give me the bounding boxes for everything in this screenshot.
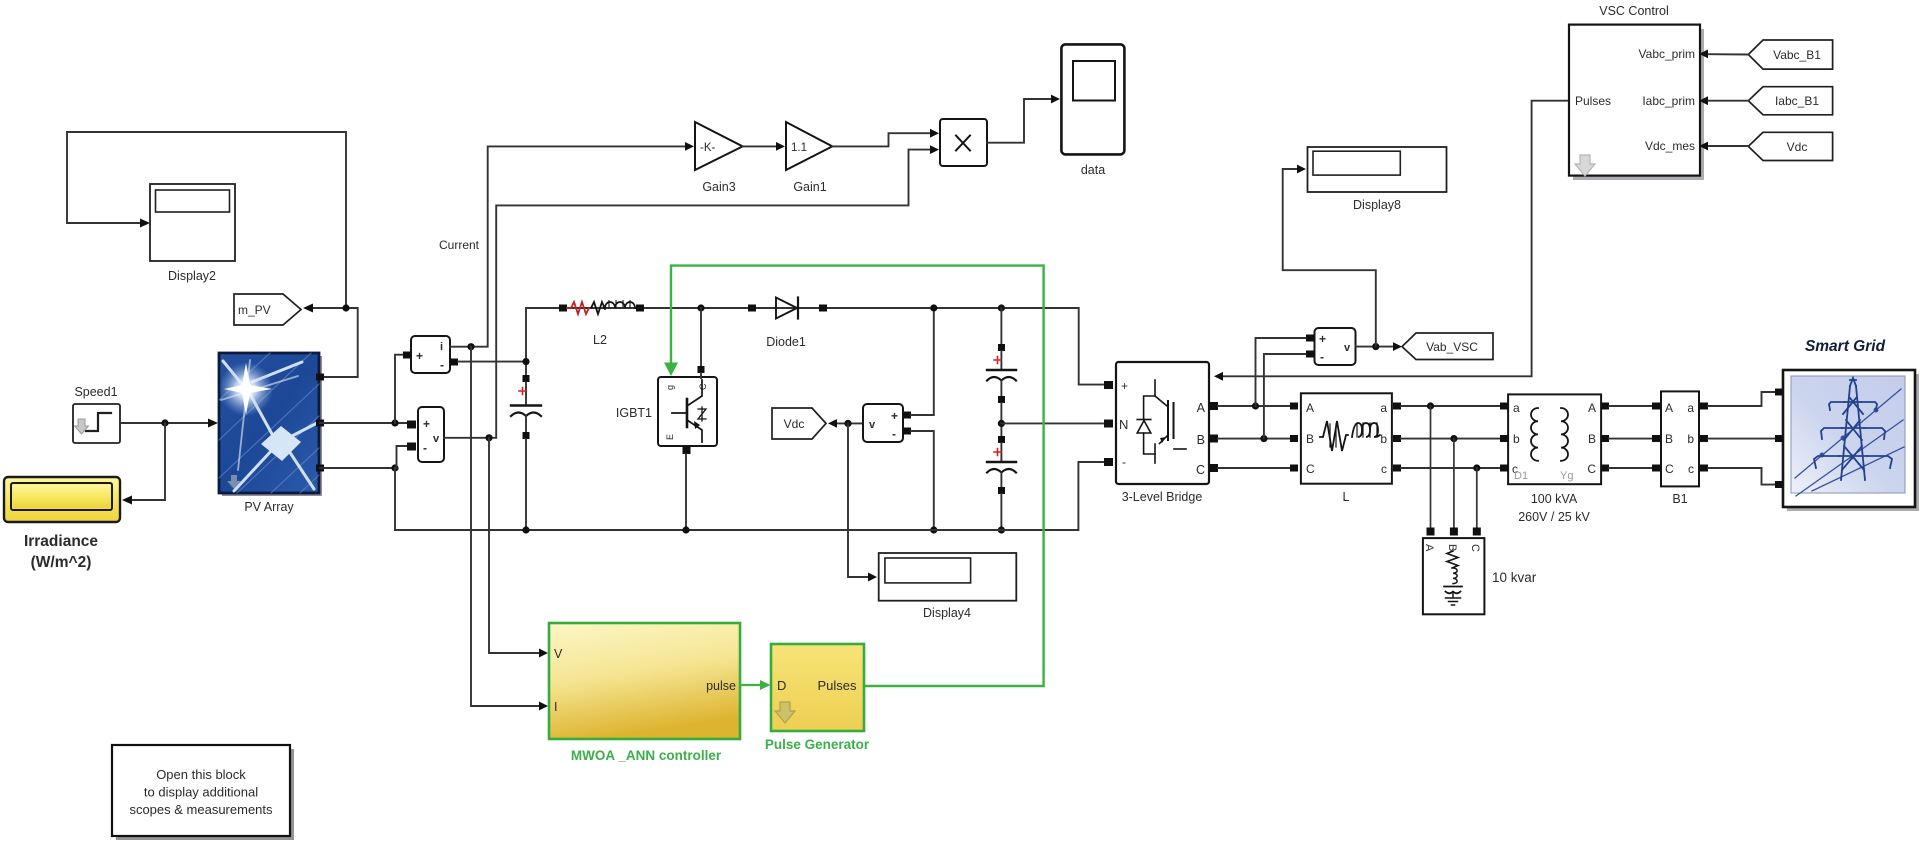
svg-text:-: - [1122,455,1126,469]
svg-text:E: E [665,434,675,440]
port square L C [1290,465,1298,472]
svg-text:B: B [1588,432,1596,446]
svg-text:b: b [1380,432,1387,446]
svg-text:PV Array: PV Array [244,500,294,514]
arrowhead into m_PV [303,304,313,313]
wire Vab sensor to tag [1356,346,1393,348]
arrowhead into controller V [539,649,548,658]
wire Vdc branch down to Display4 [848,423,869,577]
port square L a [1393,403,1401,410]
port square bridge N [1104,420,1113,428]
port square IGBT collector [698,366,705,373]
port square Vab plus [1306,335,1314,342]
PV Array output port + [316,420,324,427]
goto tag m_PV [234,294,301,325]
junction Display8 branch [1372,343,1379,350]
svg-text:-: - [892,427,896,441]
port square bridge plus [1104,381,1113,389]
wire cap link vertical [525,308,527,378]
green arrowhead into IGBT gate [664,363,678,377]
svg-text:a: a [1380,401,1387,415]
port square bridge A [1209,402,1218,410]
wire Vdc tag to VSC [1709,145,1748,147]
svg-text:a: a [1513,401,1520,415]
junction on DC plus rail [930,304,937,311]
wire voltage branch down to controller V input [489,438,540,653]
svg-text:C: C [1469,544,1481,552]
arrowhead into Gain1 [776,142,785,151]
junction bottom bus left cap [522,526,529,533]
load block 10 kvar [1423,528,1537,615]
junction PV - node [391,464,398,471]
subsystem MWOA _ANN controller [549,623,740,763]
junction Vab minus tap [1260,435,1267,442]
svg-text:Display8: Display8 [1353,198,1401,212]
svg-text:IGBT1: IGBT1 [616,406,652,420]
port square +v plus [407,421,416,429]
display Irradiance [4,477,120,571]
svg-text:10 kvar: 10 kvar [1492,570,1537,585]
svg-text:Display4: Display4 [923,606,971,620]
junction DC link caps top [998,304,1005,311]
junction kvar A tap [1427,402,1434,409]
svg-text:Pulse Generator: Pulse Generator [765,737,870,752]
subsystem Pulse Generator [765,644,870,752]
wire down to IGBT collector [700,308,702,367]
display Display8 [1308,147,1447,212]
svg-text:V: V [554,647,563,661]
transformer block [1508,394,1601,524]
port square transformer C [1601,465,1609,472]
svg-text:i: i [440,341,443,353]
wire branch up to Display8 [1283,169,1376,347]
svg-text:A: A [1423,544,1435,552]
wire vdc plus to DC plus rail [911,308,934,415]
arrowhead into PV Array [208,419,218,428]
svg-text:VSC Control: VSC Control [1599,4,1668,18]
wire tap to Vab sensor minus [1264,354,1305,439]
svg-text:C: C [1306,462,1315,476]
svg-text:+: + [1121,379,1128,393]
gain Gain3 [695,122,743,194]
port square B1 C [1652,465,1660,472]
arrowhead into Gain3 [685,142,694,151]
measurement block B1 [1661,391,1699,506]
wire v output to multiply and controller [444,150,931,438]
green arrowhead into pulse generator [760,680,771,690]
svg-text:scopes & measurements: scopes & measurements [129,802,273,817]
from tag Vabc_B1 [1748,40,1832,69]
gain Gain1 [786,122,832,194]
port square transformer B [1601,435,1609,442]
svg-text:100 kVA: 100 kVA [1531,492,1578,506]
wire B1 b to grid [1708,438,1776,440]
filter block L [1301,393,1392,504]
junction bottom bus IGBT [682,526,689,533]
arrowhead into VSC Vabc_prim [1699,50,1708,59]
wire bridge A to L filter [1218,405,1290,407]
arrowhead into product upper input [930,129,939,138]
svg-text:A: A [1306,401,1314,415]
svg-text:Vab_VSC: Vab_VSC [1426,340,1478,354]
arrowhead into Vab_VSC tag [1393,342,1402,351]
svg-text:B: B [1446,544,1458,551]
product block [940,119,987,166]
current sensor +i [411,336,450,373]
svg-text:Speed1: Speed1 [74,385,117,399]
junction cap node [522,358,529,365]
port square L A [1290,403,1298,410]
junction kvar B tap [1450,435,1457,442]
junction DC link midpoint [998,420,1005,427]
scope data [1061,44,1124,177]
wire Gain1 to product [832,133,931,146]
svg-text:I: I [554,700,557,714]
green wire controller pulse to pulse generator D [740,684,761,686]
svg-text:-K-: -K- [700,142,716,154]
port square +i minus right [450,359,458,366]
green wire pulse generator to IGBT gate [671,266,1044,686]
wire IGBT emitter to bottom bus [685,454,687,530]
port square L c [1393,465,1401,472]
diode Diode1 [748,298,827,350]
port square B1 a [1700,403,1708,410]
svg-text:C: C [1587,462,1596,476]
svg-text:a: a [1687,401,1694,415]
port square transformer b [1500,435,1508,442]
port square +v minus [407,443,416,451]
svg-text:Pulses: Pulses [817,678,857,693]
port square B1 A [1652,403,1660,410]
svg-text:B: B [1306,432,1314,446]
svg-text:-: - [1320,350,1324,364]
arrowhead into bridge P [1214,372,1223,381]
capacitor C input [511,375,541,530]
svg-text:v: v [869,419,876,431]
wire tap down to kvar B [1453,439,1455,529]
PV Array output port - [316,465,324,472]
svg-text:-: - [423,441,427,455]
voltage sensor vdc [863,404,903,442]
port square grid c [1775,481,1783,488]
wire PV + output to node [320,422,411,424]
Smart Grid block [1783,338,1919,511]
svg-text:Yg: Yg [1560,470,1573,482]
svg-text:C: C [1665,462,1674,476]
3-Level Bridge block [1116,362,1209,504]
wire Iabc_B1 to VSC [1709,100,1748,102]
display Display2 [150,184,235,283]
svg-text:C: C [1196,463,1205,477]
svg-text:Vdc: Vdc [1787,140,1808,154]
wire node up to current sensor input [395,355,405,423]
svg-text:Vdc: Vdc [784,417,805,431]
svg-text:b: b [1687,432,1694,446]
wire L c to transformer [1401,467,1500,469]
svg-text:v: v [433,433,440,445]
arrowhead into scope [1051,95,1060,104]
bottom bus wire [395,462,1103,530]
svg-text:260V / 25 kV: 260V / 25 kV [1518,510,1590,524]
wire vdc sensor output to Vdc tag [836,422,863,424]
port square +i left [403,352,411,359]
port square B1 c [1700,465,1708,472]
wire bridge B to L filter [1218,438,1290,440]
wire transformer A to B1 [1609,405,1652,407]
inductor L2 [559,301,644,348]
junction kvar C tap [1473,464,1480,471]
svg-text:Irradiance: Irradiance [24,533,98,550]
svg-text:D1: D1 [1514,470,1528,482]
svg-text:B: B [1197,433,1205,447]
svg-text:Iabc_prim: Iabc_prim [1642,94,1695,108]
junction Vdc display branch [844,420,851,427]
svg-text:Vabc_prim: Vabc_prim [1639,47,1695,61]
junction current branch [467,343,474,350]
svg-text:Gain3: Gain3 [702,180,735,194]
wire node up to voltage sensor minus input [395,446,411,468]
port square B1 b [1700,435,1708,442]
svg-text:B1: B1 [1672,492,1687,506]
svg-text:D: D [777,678,786,693]
svg-text:v: v [1344,342,1351,354]
svg-text:+: + [891,409,898,423]
svg-text:+: + [416,349,423,363]
voltage sensor +v [418,407,444,462]
goto tag Vdc [772,408,826,439]
note box Open this block [112,745,294,840]
svg-text:Gain1: Gain1 [793,180,826,194]
junction IGBT collector [697,304,704,311]
svg-text:A: A [1665,401,1673,415]
port square bridge B [1209,435,1218,443]
port square bridge minus [1104,458,1113,466]
svg-text:Smart Grid: Smart Grid [1805,338,1886,355]
arrowhead into product lower input [930,145,939,154]
port square IGBT emitter [683,446,691,454]
svg-text:1.1: 1.1 [791,142,807,154]
wire bridge C to L filter [1218,467,1290,469]
wire product to scope data [987,99,1052,143]
wire Vabc_B1 to VSC [1709,53,1748,55]
svg-text:3-Level Bridge: 3-Level Bridge [1122,490,1203,504]
junction PV + node [391,419,398,426]
display Display4 [879,553,1017,620]
svg-text:Open this block: Open this block [156,767,246,782]
svg-text:Pulses: Pulses [1575,94,1611,108]
junction Speed1 branch [161,419,168,426]
svg-text:data: data [1081,163,1105,177]
arrowhead into Vdc tag [828,419,837,428]
wire L a to transformer [1401,405,1500,407]
from tag Vdc source [1748,132,1832,160]
wire PV - output to node [320,467,395,469]
subsystem VSC Control [1569,4,1704,180]
wire Gain3 to Gain1 [743,145,777,147]
junction on bottom bus vdc [930,526,937,533]
svg-text:b: b [1513,432,1520,446]
arrowhead into Display2 [140,219,150,228]
wire tap down to kvar A [1430,406,1432,529]
svg-text:N: N [1119,417,1128,432]
svg-text:+: + [1319,332,1326,346]
goto tag Vab_VSC [1402,333,1493,360]
svg-text:c: c [1688,462,1694,476]
wire PV m output to m_PV tag [312,308,358,377]
junction m_PV branch [342,304,349,311]
port square bridge C [1209,464,1218,472]
arrowhead into controller I [539,702,548,711]
svg-text:Current: Current [439,238,480,252]
svg-text:L2: L2 [593,333,607,347]
arrowhead into VSC Vdc_mes [1699,142,1708,151]
port square transformer c [1500,465,1508,472]
junction bottom bus cap [998,526,1005,533]
port square transformer A [1601,403,1609,410]
svg-text:+: + [423,417,430,431]
wire L b to transformer [1401,438,1500,440]
port square Vab minus [1306,351,1314,358]
arrowhead into VSC Iabc_prim [1699,96,1708,105]
svg-text:m_PV: m_PV [238,303,271,317]
svg-text:(W/m^2): (W/m^2) [31,554,92,571]
PV Array block [219,353,322,514]
DC link capacitor C1 [987,308,1016,439]
wire Speed1 to PV Array input [120,422,209,424]
svg-text:to display additional: to display additional [144,785,258,800]
IGBT1 block [616,377,717,446]
DC top bus wire [526,308,1103,385]
wire i output to gain and controller [450,146,686,346]
wire VSC pulses to bridge P input [1222,101,1569,377]
svg-text:L: L [1343,490,1350,504]
junction voltage branch [485,434,492,441]
wire DC midpoint to bridge N [1001,422,1103,424]
from tag Iabc_B1 [1748,87,1832,115]
voltage sensor Vab [1315,328,1356,365]
svg-text:C: C [698,383,708,390]
wire transformer C to B1 [1609,467,1652,469]
wire Speed1 branch to Irradiance [131,423,165,500]
port square L b [1393,435,1401,442]
junction Vab plus tap [1252,402,1259,409]
svg-text:pulse: pulse [706,679,736,693]
wire B1 a to grid [1708,392,1776,406]
DC link capacitor C2 [987,436,1016,530]
wire current sensor minus to DC node [458,361,526,363]
port square B1 B [1652,435,1660,442]
wire vdc minus to bottom bus [911,431,934,530]
wire tap to Vab sensor plus [1256,338,1306,406]
port square vdc minus [903,428,911,435]
port square transformer a [1500,403,1508,410]
svg-text:Iabc_B1: Iabc_B1 [1775,94,1819,108]
svg-text:Vdc_mes: Vdc_mes [1645,139,1695,153]
svg-text:A: A [1197,401,1206,415]
port square grid b [1775,435,1783,442]
arrowhead into Irradiance [122,496,132,505]
port square grid a [1775,389,1783,396]
svg-text:g: g [665,385,675,390]
wire transformer B to B1 [1609,438,1652,440]
PV Array output port m [316,374,324,381]
arrowhead into Display8 [1297,165,1306,174]
svg-text:MWOA _ANN controller: MWOA _ANN controller [571,748,722,763]
svg-text:A: A [1588,401,1596,415]
source block Speed1 [73,385,120,443]
wire B1 c to grid [1708,468,1776,485]
svg-text:Diode1: Diode1 [766,335,806,349]
arrowhead into Display4 [868,573,877,582]
svg-text:Display2: Display2 [168,269,216,283]
svg-text:B: B [1665,432,1673,446]
wire current branch down to controller I input [471,347,540,706]
port square vdc plus [903,412,911,419]
port square L B [1290,435,1298,442]
svg-text:Vabc_B1: Vabc_B1 [1773,48,1821,62]
wire tap down to kvar C [1476,468,1478,529]
svg-text:-: - [440,358,444,372]
svg-text:c: c [1381,462,1387,476]
wire PV m output feedback loop to Display2 [67,132,346,308]
